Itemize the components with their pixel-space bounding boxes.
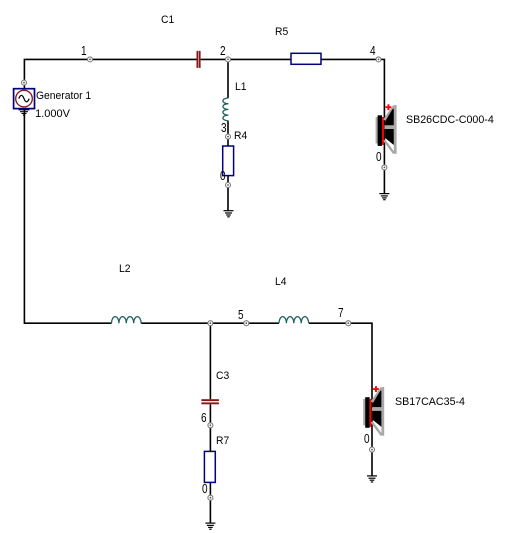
generator G1 sine circle xyxy=(16,90,33,107)
speaker driver SB17CAC35-4 (woofer) xyxy=(363,386,384,436)
node number 1 xyxy=(81,44,87,57)
ground below R4 xyxy=(224,211,234,217)
node 3 xyxy=(226,134,231,139)
node 0 below tweeter xyxy=(382,165,387,170)
value 1.000V xyxy=(35,109,70,120)
inductor L4 coil xyxy=(279,317,309,324)
node 6 xyxy=(208,423,213,428)
node number 0 (below tweeter) xyxy=(376,150,382,163)
speaker driver SB26CDC-C000-4 (tweeter) xyxy=(376,104,397,154)
node number 3 xyxy=(221,121,227,134)
label Generator 1 xyxy=(36,91,91,102)
node number 5 xyxy=(238,308,244,321)
label L4 xyxy=(275,277,287,288)
generator ground bars xyxy=(19,110,30,115)
label C1 xyxy=(161,15,174,26)
capacitor C1 plates xyxy=(197,51,201,68)
node 5 xyxy=(244,321,249,326)
label SB17CAC35-4 xyxy=(395,397,465,408)
capacitor C3 plates xyxy=(201,399,219,404)
node number 4 xyxy=(370,44,376,57)
wire top-left corner to node 1 to C1 left plate xyxy=(24,59,196,88)
wire R5 right to node 4 and corner down to tweeter xyxy=(321,59,384,194)
wire C3 bottom plate to node6 to R7 top xyxy=(209,404,211,451)
node 0 below woofer xyxy=(370,447,375,452)
node number 2 xyxy=(220,44,226,57)
wire generator down left side to bottom rail xyxy=(24,109,111,324)
ground below tweeter xyxy=(379,194,389,200)
node number 0 (below R7) xyxy=(202,482,208,495)
label SB26CDC-C000-4 xyxy=(406,115,494,126)
resistor R7 body xyxy=(204,451,215,482)
wire L1 bottom to node3 to R4 top xyxy=(227,121,229,146)
node number 0 (below woofer) xyxy=(364,432,370,445)
wire L2 right to junction to node5 to L4 left xyxy=(141,322,279,324)
ground below R7 xyxy=(205,523,215,529)
generator G1 sine wave xyxy=(19,95,29,101)
node 4 xyxy=(376,57,381,62)
node 7 xyxy=(346,321,351,326)
generator G1 box xyxy=(14,89,35,109)
node number 7 xyxy=(338,306,344,319)
wire C1 right plate to node 2 to R5 left xyxy=(201,58,291,60)
node number 6 xyxy=(201,411,207,424)
junction node on bottom rail xyxy=(208,321,213,326)
wire R7 bottom to node0 to ground xyxy=(209,483,211,524)
resistor R4 body xyxy=(223,146,234,176)
label C3 xyxy=(216,371,229,382)
wire L4 right to node7 and corner down to woofer xyxy=(309,323,372,476)
wire node2 down to L1 top xyxy=(227,59,229,98)
wire R4 bottom to node 0 to ground xyxy=(227,176,229,211)
inductor L1 coil xyxy=(223,98,229,121)
label L1 xyxy=(235,82,247,93)
label R7 xyxy=(216,436,229,447)
node 1 xyxy=(88,57,93,62)
wire junction down to C3 top plate xyxy=(209,323,211,399)
node 0 below R7 xyxy=(208,495,213,500)
label R5 xyxy=(275,27,288,38)
inductor L2 coil xyxy=(112,317,142,324)
node 0 below R4 xyxy=(226,183,231,188)
generator terminal node xyxy=(22,80,27,85)
label L2 xyxy=(119,264,131,275)
ground below woofer xyxy=(367,476,377,482)
node 2 xyxy=(226,57,231,62)
resistor R5 body xyxy=(291,53,321,64)
label R4 xyxy=(234,131,247,142)
node number 0 (below R4) xyxy=(220,169,226,182)
